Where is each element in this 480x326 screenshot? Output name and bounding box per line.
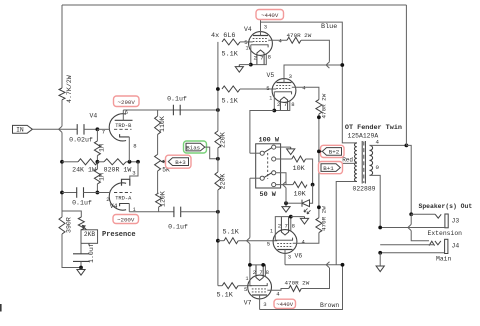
svg-text:TRD-A: TRD-A bbox=[115, 195, 132, 201]
node B+2 tap dot bbox=[317, 150, 321, 154]
svg-text:2: 2 bbox=[106, 196, 109, 203]
node bias bus V5 grid bbox=[216, 87, 220, 91]
wire V7 470R to bus bbox=[301, 268, 329, 289]
junction 470R drop merge bbox=[326, 62, 329, 68]
potentiometer 2KB label box bbox=[81, 230, 98, 244]
wire V5 470R to B+2 bbox=[318, 114, 320, 207]
wire bias bus top lead bbox=[217, 42, 219, 131]
potentiometer 2KB element bbox=[78, 217, 84, 230]
svg-text:3: 3 bbox=[132, 170, 135, 177]
wire 5.1K V7 lead bbox=[218, 285, 222, 287]
ground V6 cathode bbox=[300, 217, 308, 224]
resistor 24K 1W bbox=[78, 159, 98, 165]
svg-text:470R 2W: 470R 2W bbox=[285, 280, 310, 287]
wire 5K to 120K bbox=[157, 171, 159, 193]
svg-text:V4: V4 bbox=[244, 26, 252, 33]
node left bus tap 24K bbox=[60, 160, 64, 164]
triode V4 TRD-B envelope bbox=[109, 114, 126, 141]
wire presence cap left lead bbox=[62, 192, 77, 194]
svg-text:125A129A: 125A129A bbox=[348, 133, 379, 140]
wire 5.1K V4 to grid bbox=[240, 41, 253, 43]
annotation box 440V top bbox=[256, 10, 284, 20]
resistor 390R bbox=[59, 217, 65, 234]
node LED ground dot bbox=[284, 201, 288, 205]
tube V4 6L6 bbox=[249, 32, 273, 65]
wire Bias to bus bbox=[205, 147, 218, 159]
tube V6 6L6 bbox=[273, 217, 297, 254]
LED arrows bbox=[304, 209, 311, 214]
terminal throw2 bbox=[272, 157, 276, 161]
svg-text:J4: J4 bbox=[452, 243, 460, 250]
resistor 1M upper bbox=[94, 141, 100, 156]
svg-text:1M: 1M bbox=[99, 173, 106, 181]
wire brown bus bbox=[260, 265, 343, 310]
svg-text:0.1uf: 0.1uf bbox=[72, 200, 92, 207]
svg-text:5: 5 bbox=[244, 286, 247, 293]
svg-text:2 7: 2 7 bbox=[254, 55, 264, 62]
svg-text:Brown: Brown bbox=[320, 302, 339, 309]
jack J3 body bbox=[445, 214, 448, 228]
svg-text:~440V: ~440V bbox=[261, 12, 279, 19]
svg-text:0.02uf: 0.02uf bbox=[69, 137, 93, 144]
svg-text:8: 8 bbox=[291, 101, 294, 108]
wire V6 cathode to ground bbox=[291, 216, 305, 218]
svg-text:4.7K/2W: 4.7K/2W bbox=[66, 75, 73, 103]
resistor 470R 2W V5 bbox=[316, 100, 322, 114]
wire 24K left lead bbox=[62, 161, 78, 163]
wire rail jog bbox=[406, 145, 411, 214]
wire J4 sleeve bbox=[380, 252, 444, 254]
svg-text:120K: 120K bbox=[160, 191, 167, 207]
wire throw1 to ground bbox=[276, 146, 291, 148]
wire 5.1K V7 to grid bbox=[238, 285, 252, 287]
ground throw1 bbox=[287, 147, 295, 154]
connector B+3 glyph bbox=[168, 158, 188, 166]
wire 110K to 5K bbox=[157, 135, 159, 155]
resistor 5.1K V5 bbox=[222, 86, 240, 92]
wire V4 screen lead bbox=[268, 39, 287, 41]
wire V4b cathode riser bbox=[128, 204, 130, 212]
svg-text:IN: IN bbox=[16, 127, 24, 134]
wire V4b cathode rail bbox=[129, 211, 174, 213]
triode V4b plate bracket bbox=[122, 179, 130, 186]
node J3 tip dot bbox=[409, 212, 413, 216]
wire grid1 node down bbox=[96, 129, 98, 141]
wire throw3 lead bbox=[276, 173, 287, 185]
terminal pole2 bbox=[260, 176, 264, 180]
resistor 470R 2W V6 bbox=[316, 218, 322, 233]
resistor 470R 2W V7 bbox=[289, 286, 302, 292]
jack J3 tip contact bbox=[435, 214, 441, 218]
svg-text:1: 1 bbox=[270, 229, 273, 235]
wire throw4 lead bbox=[276, 184, 293, 186]
node tail junction bbox=[96, 160, 100, 164]
wire V4a plate rail bbox=[123, 109, 218, 111]
resistor 220K upper bbox=[215, 131, 221, 148]
wire ground node up bbox=[285, 188, 287, 204]
node 470R V5 bottom bbox=[317, 115, 321, 119]
wire secondary 0 tap bbox=[370, 175, 381, 227]
svg-text:V5: V5 bbox=[267, 72, 275, 79]
wire 2KB to cap bbox=[80, 243, 82, 254]
node brown join bbox=[341, 263, 345, 267]
wire 5.1K V5 to grid bbox=[240, 88, 276, 90]
connector B+2 bbox=[322, 148, 341, 156]
switch arm pole1 bbox=[264, 148, 272, 153]
node left bus tap presence bbox=[60, 191, 64, 195]
svg-text:0.1uf: 0.1uf bbox=[167, 96, 187, 103]
svg-text:8: 8 bbox=[133, 143, 136, 150]
wire bias bus mid bbox=[217, 148, 219, 172]
ground speakers bbox=[376, 266, 384, 272]
potentiometer 5K element bbox=[155, 154, 161, 171]
node V5 cathode dot bbox=[272, 109, 276, 113]
svg-text:220K: 220K bbox=[219, 174, 226, 190]
svg-text:3: 3 bbox=[264, 24, 267, 31]
wire left vertical bus mid2 bbox=[61, 132, 63, 217]
jack J4 tip contact bbox=[435, 241, 441, 245]
capacitor 0.1uf presence bbox=[77, 187, 84, 198]
node V7 cathode dot bbox=[248, 263, 252, 267]
node bias injection bbox=[216, 157, 220, 161]
ground switch LED bbox=[282, 203, 290, 212]
svg-text:5.1K: 5.1K bbox=[217, 292, 234, 300]
wire red center tap bbox=[340, 163, 357, 167]
LED D1 bbox=[302, 200, 310, 207]
svg-text:Main: Main bbox=[436, 256, 452, 263]
triode V4b cathode bbox=[120, 204, 130, 207]
triode V4b grid dashes bbox=[114, 192, 132, 194]
node cathode tap bbox=[128, 160, 132, 164]
svg-text:~440V: ~440V bbox=[276, 301, 293, 308]
wire blue plate link bbox=[261, 22, 357, 143]
svg-text:Blue: Blue bbox=[321, 23, 337, 31]
resistor 110K bbox=[155, 116, 161, 135]
wire lower cap to bias bus bbox=[180, 211, 218, 213]
ground presence bbox=[77, 268, 85, 276]
wire left vertical lower bbox=[62, 234, 81, 268]
wire 10K join down bbox=[310, 185, 313, 204]
wire V6 470R top lead bbox=[318, 207, 320, 217]
wire V4a grid lead bbox=[97, 128, 110, 130]
wire secondary 4 tap bbox=[370, 144, 407, 146]
switch arm pole2 bbox=[264, 173, 272, 178]
tube V5 6L6 bbox=[272, 79, 296, 111]
wire throw2 lead bbox=[276, 158, 292, 160]
connector B+3 bbox=[168, 158, 188, 166]
transformer core lines bbox=[361, 141, 363, 184]
wire presence top bus bbox=[62, 211, 81, 217]
resistor 4.7K/2W bbox=[59, 88, 65, 100]
resistor 10K lower bbox=[293, 182, 307, 188]
wire V4b plate feed bbox=[130, 162, 138, 180]
node V4 cathode dot bbox=[249, 63, 253, 67]
svg-text:1M: 1M bbox=[99, 144, 106, 152]
svg-text:0: 0 bbox=[376, 164, 380, 171]
svg-text:8: 8 bbox=[292, 222, 295, 229]
wire J3 to J4 link upper bbox=[410, 214, 412, 224]
switch box bbox=[256, 144, 281, 188]
svg-text:3: 3 bbox=[263, 301, 266, 308]
wire 120K bottom bbox=[158, 207, 160, 212]
transformer OT secondary winding bbox=[370, 145, 373, 175]
resistor 5.1K V7 bbox=[222, 283, 238, 289]
node grid1 dot bbox=[96, 127, 100, 131]
wire V7 plate drop bbox=[259, 295, 261, 310]
svg-text:390R: 390R bbox=[66, 217, 73, 233]
wire bias bus lower bbox=[217, 190, 219, 286]
node plate drop tap bbox=[136, 160, 140, 164]
wire 110K top lead bbox=[157, 110, 159, 116]
svg-text:10K: 10K bbox=[294, 191, 307, 199]
svg-text:1: 1 bbox=[246, 276, 249, 282]
svg-text:2 7: 2 7 bbox=[253, 269, 263, 276]
wire IN to junction bbox=[32, 128, 77, 130]
svg-text:7: 7 bbox=[102, 129, 105, 136]
svg-text:8: 8 bbox=[268, 54, 271, 61]
node presence ground dot bbox=[79, 266, 83, 270]
svg-text:022889: 022889 bbox=[353, 186, 376, 193]
wire pole2 vertical bbox=[249, 178, 251, 237]
node bias bus top cap bbox=[216, 108, 220, 112]
node bias bus bottom cap bbox=[216, 210, 220, 214]
svg-text:3: 3 bbox=[289, 73, 292, 80]
svg-text:110K: 110K bbox=[159, 116, 166, 132]
wire 820R right lead bbox=[126, 161, 138, 163]
wire V4a plate riser bbox=[122, 110, 124, 120]
wire J3 tip bbox=[411, 213, 435, 215]
svg-text:Bias: Bias bbox=[186, 144, 200, 151]
svg-text:~290V: ~290V bbox=[117, 99, 135, 106]
triode V4 TRD-A envelope bbox=[109, 183, 126, 210]
wire V5 screen lead bbox=[292, 87, 319, 99]
capacitor 0.02uf bbox=[77, 124, 84, 135]
wire 820R left lead bbox=[97, 161, 104, 163]
svg-text:V7: V7 bbox=[244, 300, 252, 307]
wire OT primary bottom bbox=[336, 182, 357, 265]
resistor 1M lower bbox=[94, 169, 100, 184]
wire V7 screen lead bbox=[267, 289, 288, 291]
svg-text:V6: V6 bbox=[295, 253, 303, 260]
ground V4 cathode bbox=[235, 65, 243, 73]
svg-text:1.0uf: 1.0uf bbox=[88, 243, 95, 263]
svg-text:B+3: B+3 bbox=[175, 159, 186, 166]
wire right rail vertical bbox=[405, 5, 407, 145]
svg-text:B+2: B+2 bbox=[329, 149, 340, 156]
annotation box 440V bottom bbox=[274, 299, 296, 308]
svg-text:50 W: 50 W bbox=[260, 191, 277, 199]
svg-text:Presence: Presence bbox=[102, 231, 136, 239]
annotation box B+2 bbox=[321, 145, 345, 157]
junction throw3 merge bbox=[283, 182, 286, 188]
wire 5.1K V6 to grid bbox=[238, 240, 277, 242]
resistor 5.1K V4 bbox=[222, 39, 240, 45]
switch link dashed bbox=[267, 153, 269, 179]
junction V6 grid merge bbox=[247, 238, 250, 244]
wire pole2 vertical lower bbox=[249, 244, 251, 265]
wire cap to grid node bbox=[84, 128, 97, 130]
wire between 1M resistors bbox=[96, 156, 98, 170]
resistor 820R 1W bbox=[104, 159, 126, 165]
annotation box 200V bbox=[113, 215, 139, 224]
svg-text:100 W: 100 W bbox=[259, 137, 280, 145]
transformer OT primary winding bbox=[355, 143, 357, 182]
wire 1M lower to grid2 bbox=[96, 184, 98, 193]
svg-text:5.1K: 5.1K bbox=[223, 229, 240, 237]
connector B+1 bbox=[321, 164, 340, 172]
potentiometer 2KB wiper arrow bbox=[84, 227, 87, 230]
wire V4 plate riser bbox=[260, 20, 262, 36]
wire V4a cathode riser bbox=[128, 137, 130, 162]
svg-text:V4: V4 bbox=[90, 113, 98, 120]
node bias bus V6 grid bbox=[216, 239, 220, 243]
svg-text:1: 1 bbox=[269, 96, 272, 102]
wire left vertical bus upper bbox=[61, 5, 63, 88]
wire LED to ground node bbox=[286, 202, 302, 204]
terminal throw4 bbox=[272, 183, 276, 187]
svg-text:470R 2W: 470R 2W bbox=[321, 206, 328, 231]
node J4 sleeve dot bbox=[378, 251, 382, 255]
resistor 10K upper bbox=[292, 156, 306, 162]
edge text fragment bbox=[0, 304, 2, 312]
svg-text:470R 2W: 470R 2W bbox=[321, 93, 328, 118]
terminal throw3 bbox=[272, 171, 276, 175]
triode V4a cathode bbox=[120, 134, 130, 137]
svg-text:2 7: 2 7 bbox=[277, 101, 287, 108]
svg-text:~200V: ~200V bbox=[117, 217, 135, 224]
node V7 cathode dot right bbox=[261, 263, 265, 267]
node B+2 bus bottom bbox=[317, 205, 321, 209]
triode V4a grid dashes bbox=[114, 128, 132, 130]
node J3 sleeve dot bbox=[378, 226, 382, 230]
junction V7 screen merge bbox=[326, 262, 329, 268]
resistor 470R 2W V4 bbox=[287, 37, 301, 43]
svg-text:4x 6L6: 4x 6L6 bbox=[211, 32, 235, 40]
svg-text:10K: 10K bbox=[293, 165, 306, 173]
capacitor 0.1uf upper bbox=[173, 105, 180, 115]
svg-text:Speaker(s) Out: Speaker(s) Out bbox=[419, 203, 473, 210]
annotation box B+3 bbox=[166, 155, 192, 168]
svg-text:Extension: Extension bbox=[428, 230, 463, 237]
svg-text:5.1K: 5.1K bbox=[222, 98, 239, 106]
node 10K join bbox=[311, 183, 315, 187]
svg-text:470R 2W: 470R 2W bbox=[287, 32, 312, 39]
capacitor 0.1uf lower bbox=[174, 207, 181, 218]
wire speaker ground drop bbox=[379, 253, 381, 266]
node plate bus join bbox=[340, 63, 344, 67]
svg-text:1: 1 bbox=[246, 46, 249, 52]
wire V4b grid lead bbox=[97, 192, 110, 194]
node V6 cathode dot bbox=[289, 215, 293, 219]
jack J4 body bbox=[445, 239, 448, 253]
potentiometer 5K wiper arrow bbox=[161, 161, 168, 163]
svg-text:8: 8 bbox=[266, 269, 269, 276]
resistor 5.1K V6 bbox=[224, 238, 238, 244]
annotation box Bias bbox=[184, 141, 207, 153]
svg-text:4: 4 bbox=[376, 139, 380, 146]
capacitor 1.0uf bbox=[73, 254, 90, 262]
svg-text:2KB: 2KB bbox=[84, 231, 95, 238]
svg-text:2 7: 2 7 bbox=[278, 222, 288, 229]
wire V5 cathode to switch bbox=[250, 111, 274, 154]
resistor 120K bbox=[156, 193, 162, 207]
svg-text:TRD-B: TRD-B bbox=[115, 123, 132, 129]
tube V7 6L6 bbox=[248, 265, 272, 299]
wire 10K upper to join bbox=[306, 159, 313, 185]
svg-text:24K 1W: 24K 1W bbox=[72, 167, 96, 174]
wire V6 screen lead bbox=[293, 233, 319, 244]
wire V4 470R to blue drop bbox=[301, 40, 329, 62]
junction J3 sleeve merge bbox=[408, 224, 411, 230]
wire pole2 lead bbox=[250, 177, 261, 179]
junction merge at IN node bbox=[59, 126, 62, 132]
wire V5 plate riser bbox=[284, 65, 342, 83]
svg-text:5: 5 bbox=[266, 85, 269, 92]
wire V6 plate drop bbox=[284, 250, 286, 265]
wire J4 tip bbox=[380, 244, 434, 246]
wire J3 sleeve bbox=[380, 227, 445, 229]
resistor 220K lower bbox=[215, 172, 221, 190]
jack J4 shunt contact bbox=[429, 241, 435, 245]
wire cap to ground node bbox=[80, 261, 82, 267]
svg-text:OT Fender Twin: OT Fender Twin bbox=[345, 124, 402, 132]
wire top feedback rail bbox=[62, 4, 406, 6]
svg-text:5.1K: 5.1K bbox=[222, 51, 239, 59]
node 4 tap dot bbox=[405, 144, 409, 148]
annotation box 290V bbox=[114, 96, 140, 107]
annotation box B+1 bbox=[319, 162, 343, 174]
svg-text:220K: 220K bbox=[219, 132, 226, 148]
wire J3 to J4 link lower bbox=[411, 231, 429, 241]
wire left vertical bus mid bbox=[61, 100, 63, 126]
terminal pole1 bbox=[260, 151, 264, 155]
svg-text:B+1: B+1 bbox=[323, 165, 334, 172]
svg-text:3: 3 bbox=[288, 254, 291, 261]
connector Bias bbox=[186, 143, 205, 151]
svg-text:Red: Red bbox=[342, 156, 353, 163]
svg-text:5: 5 bbox=[267, 241, 270, 248]
terminal throw1 bbox=[272, 145, 276, 149]
wire 5.1K V6 lead bbox=[218, 240, 224, 242]
wire V4 cathode to ground bbox=[239, 64, 251, 66]
node grid2 dot bbox=[96, 191, 100, 195]
svg-text:0.1uf: 0.1uf bbox=[168, 224, 188, 231]
wire presence cap right lead bbox=[83, 192, 97, 194]
connector IN bbox=[13, 125, 33, 133]
triode V4a plate bbox=[115, 119, 133, 121]
wire B+2 tap bbox=[319, 150, 322, 152]
svg-text:V4: V4 bbox=[110, 203, 118, 210]
svg-text:J3: J3 bbox=[452, 218, 460, 225]
svg-text:820R 1W: 820R 1W bbox=[104, 167, 132, 174]
wire pole1 lead bbox=[250, 152, 261, 154]
